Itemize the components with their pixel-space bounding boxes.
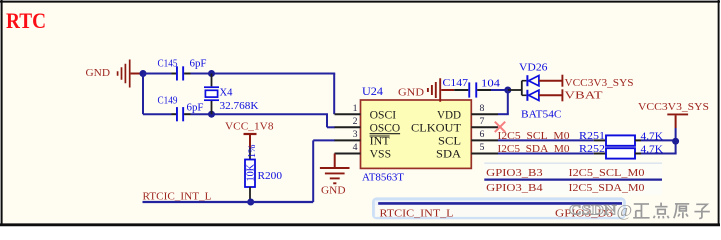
- ground below VSS pin 4 (earth style): [320, 154, 350, 197]
- sheet border frame: [0, 1, 720, 3]
- svg-text:RTCIC_INT_L: RTCIC_INT_L: [143, 191, 212, 203]
- wire RTCIC_INT_L (bottom bar): [378, 202, 622, 205]
- no-ERC marker X on pin 7: [495, 122, 505, 132]
- svg-text:6pF: 6pF: [187, 103, 204, 114]
- svg-text:4: 4: [353, 142, 358, 153]
- node: R200 bottom junction on RTCIC_INT_L: [247, 199, 254, 206]
- wire: GND junction to C145: [143, 73, 177, 75]
- capacitor C145 6pF: [158, 59, 207, 81]
- svg-text:GND: GND: [398, 87, 424, 99]
- annotation table GPIO3_B3/B4 mapping: [484, 163, 662, 195]
- svg-text:VSS: VSS: [370, 149, 392, 161]
- svg-text:INT: INT: [370, 136, 390, 148]
- pin 1 (OSCI) line: [335, 113, 361, 115]
- svg-text:OSCI: OSCI: [370, 109, 397, 121]
- svg-text:1: 1: [353, 103, 358, 114]
- svg-text:I2C5_SCL_M0: I2C5_SCL_M0: [569, 167, 646, 179]
- pin 6 (SCL) line: [471, 139, 498, 141]
- power VCC3V3_SYS (at diode): [539, 75, 634, 89]
- watermark CJK dian (vector): [654, 203, 669, 219]
- svg-text:7: 7: [480, 116, 485, 127]
- wire: C147 to VDD node: [491, 89, 508, 91]
- svg-text:6pF: 6pF: [190, 59, 207, 70]
- watermark CJK zheng (vector): [633, 203, 710, 219]
- ground GND (left, signal-ground symbol): [86, 60, 141, 88]
- wire RTCIC_INT_L to pin 3: [143, 140, 336, 202]
- svg-text:VCC_1V8: VCC_1V8: [225, 121, 274, 133]
- wire: C149 to crystal-bottom node, jog to pin 2: [184, 114, 335, 127]
- watermark CJK zi (vector): [694, 204, 709, 218]
- svg-text:RTCIC_INT_L: RTCIC_INT_L: [380, 207, 454, 219]
- svg-text:104: 104: [481, 79, 501, 90]
- svg-text:VCC3V3_SYS: VCC3V3_SYS: [638, 101, 709, 113]
- svg-text:6: 6: [480, 129, 485, 140]
- svg-text:R200: R200: [258, 171, 283, 182]
- svg-text:I2C5_SDA_M0: I2C5_SDA_M0: [569, 182, 646, 194]
- svg-text:CLKOUT: CLKOUT: [411, 123, 461, 135]
- svg-text:10K: 10K: [246, 164, 257, 182]
- svg-text:CSDN: CSDN: [569, 203, 617, 219]
- svg-text:AT8563T: AT8563T: [362, 172, 404, 184]
- wire: R252 to VCC rail corner: [635, 140, 677, 153]
- svg-text:VBAT: VBAT: [565, 90, 603, 102]
- wire: C145 to crystal-top node and on to pin 1: [184, 74, 335, 115]
- svg-text:@: @: [617, 201, 633, 220]
- pin name OSCO (underlined): [370, 123, 401, 135]
- svg-text:VCC3V3_SYS: VCC3V3_SYS: [565, 77, 634, 89]
- svg-text:RTC: RTC: [6, 8, 46, 33]
- svg-text:U24: U24: [362, 86, 383, 98]
- wire: GND junction down to C149 row: [143, 74, 177, 114]
- svg-text:GND: GND: [321, 185, 346, 197]
- node: VDD junction: [504, 87, 511, 94]
- svg-text:GPIO3_B3: GPIO3_B3: [486, 167, 543, 179]
- selection highlight bar: [372, 197, 626, 219]
- svg-text:5: 5: [480, 142, 485, 153]
- svg-text:R251: R251: [579, 131, 605, 142]
- capacitor C149 6pF: [158, 96, 204, 122]
- svg-text:GND: GND: [86, 67, 111, 79]
- svg-text:GPIO3_B4: GPIO3_B4: [486, 182, 543, 194]
- resistor R251 4.7K: [579, 131, 663, 146]
- capacitor C147 104: [443, 78, 501, 98]
- svg-text:SCL: SCL: [438, 136, 461, 148]
- pin name INT (overlined): [370, 136, 390, 148]
- node: VCC rail junction at R251: [672, 138, 679, 145]
- crystal X4 32.768K: [204, 74, 259, 115]
- pin 4 (VSS) line: [335, 153, 361, 155]
- svg-text:1%: 1%: [247, 144, 258, 158]
- svg-text:C145: C145: [158, 59, 178, 70]
- pin 3 (INT) line: [335, 139, 361, 141]
- power VCC_1V8: [225, 121, 274, 149]
- resistor R252 4.7K: [579, 144, 663, 159]
- svg-text:SDA: SDA: [436, 149, 462, 161]
- power VBAT (at diode): [539, 89, 603, 101]
- pin 5 (SDA) line: [471, 153, 498, 155]
- node: crystal top junction: [208, 70, 215, 77]
- op-amp/IC U24 AT8563T body: [361, 86, 472, 184]
- svg-text:R252: R252: [579, 144, 605, 155]
- svg-text:3: 3: [353, 129, 358, 140]
- resistor R200 10K 1%: [245, 144, 282, 199]
- node: GND junction left: [140, 70, 147, 77]
- wire: pin 6 to R251: [498, 139, 606, 141]
- svg-text:C147: C147: [443, 78, 469, 89]
- pin 8 (VDD) line: [471, 113, 498, 115]
- pin 7 (CLKOUT) line: [471, 126, 498, 128]
- ground GND (top, signal-ground symbol): [398, 78, 454, 102]
- svg-text:2: 2: [353, 116, 358, 127]
- power VCC3V3_SYS (right rail): [638, 101, 709, 141]
- svg-text:OSCO: OSCO: [370, 123, 401, 135]
- svg-text:8: 8: [480, 103, 485, 114]
- wire: R251 to VCC rail: [635, 139, 676, 141]
- svg-text:VDD: VDD: [437, 109, 461, 121]
- watermark CJK yuan (vector): [674, 204, 689, 218]
- svg-text:X4: X4: [220, 88, 234, 99]
- node: crystal bottom junction: [208, 111, 215, 118]
- wire: VDD node down to pin 8: [498, 90, 509, 114]
- svg-text:32.768K: 32.768K: [220, 101, 259, 112]
- pin 2 (OSCO) line: [335, 126, 361, 128]
- diode VD26 BAT54C (dual common-cathode): [508, 62, 562, 121]
- svg-text:C149: C149: [158, 96, 178, 107]
- svg-text:BAT54C: BAT54C: [521, 109, 562, 121]
- wire: pin 5 to R252: [498, 153, 606, 155]
- svg-text:VD26: VD26: [519, 62, 548, 74]
